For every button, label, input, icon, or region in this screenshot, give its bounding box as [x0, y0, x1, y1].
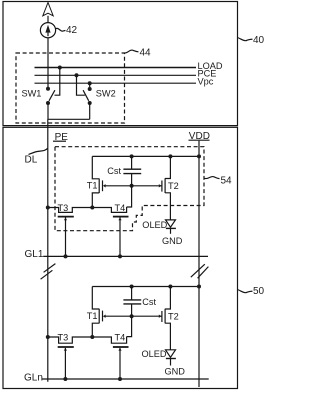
transistor T4 gate: [113, 216, 129, 218]
transistor T1 gate arrow: [103, 184, 106, 187]
svg-text:T1: T1: [87, 311, 98, 321]
svg-text:Vpc: Vpc: [198, 76, 214, 86]
transistor T3 gate pixel2: [58, 346, 74, 348]
node Cst top pixel2: [130, 285, 134, 289]
svg-text:SW2: SW2: [96, 88, 116, 98]
wire Vpc to SW2 contact: [89, 83, 91, 87]
node Cst top: [130, 154, 134, 158]
block 40 border: [3, 2, 238, 126]
transistor T1 gate pixel2: [102, 311, 104, 322]
LOAD line: [35, 67, 197, 69]
svg-text:GLn: GLn: [24, 373, 43, 384]
svg-text:OLED: OLED: [142, 349, 167, 359]
node GLn T3: [63, 377, 67, 381]
transistor T4 gate arrow: [118, 218, 121, 221]
OLED diode pixel1: [166, 220, 176, 227]
svg-text:DL: DL: [25, 154, 38, 165]
svg-text:Cst: Cst: [142, 297, 156, 307]
capacitor Cst lead top pixel2: [131, 287, 133, 300]
svg-text:OLED: OLED: [142, 220, 167, 230]
wire T3 gate to GLn: [64, 348, 66, 379]
switch SW2 arm: [83, 90, 89, 101]
capacitor Cst plates: [123, 168, 141, 170]
transistor T2 gate pixel2: [161, 311, 163, 322]
wire PCE to SW2 throw: [77, 75, 85, 95]
wire SW1 to output bus: [47, 103, 49, 119]
switch SW1 arm: [49, 90, 55, 101]
transistor T2 gate: [161, 181, 163, 192]
svg-text:PE: PE: [55, 132, 69, 143]
svg-text:SW1: SW1: [22, 88, 42, 98]
transistor T4 gate arrow pixel2: [118, 348, 121, 351]
svg-text:GND: GND: [165, 367, 186, 377]
node storage gate pixel2: [130, 314, 134, 318]
pixel boundary box 54 dashed: [55, 147, 204, 231]
node T2 drain: [168, 154, 172, 158]
wire T3 gate to GL1: [65, 218, 67, 257]
transistor T1 channel pixel2: [92, 287, 99, 338]
wire VDD row: [92, 155, 199, 157]
svg-text:T3: T3: [58, 332, 69, 342]
wire DL data line: [47, 119, 49, 382]
wire T4 gate to GLn: [119, 348, 121, 379]
capacitor Cst plates pixel2: [123, 299, 141, 301]
wire SW2 to output bus: [89, 103, 91, 119]
svg-text:T1: T1: [87, 181, 98, 191]
node DL tap pixel2: [46, 335, 50, 339]
transistor T2 gate arrow: [159, 184, 162, 187]
node storage gate: [130, 184, 134, 188]
Vpc line: [35, 82, 197, 84]
node LOAD junction: [58, 66, 62, 70]
switch SW1 contact from current source: [46, 87, 50, 91]
switch SW2 pivot: [88, 101, 92, 105]
svg-text:44: 44: [140, 48, 152, 59]
wire LOAD to SW1 throw: [55, 68, 60, 96]
GL1 line: [43, 255, 208, 257]
break marks DL: [41, 264, 56, 280]
label DL leader: [28, 148, 47, 154]
break marks VDD rail: [191, 264, 209, 278]
wire VDD row pixel2: [92, 286, 199, 288]
capacitor Cst lead bottom pixel2: [127, 304, 132, 337]
svg-text:54: 54: [221, 175, 233, 186]
arrow head (output): [43, 3, 53, 16]
transistor T2 channel: [165, 156, 170, 220]
label 54 leader: [205, 176, 220, 178]
node GLn T4: [118, 377, 122, 381]
node PCE junction: [75, 73, 79, 77]
label 42 leader: [56, 28, 66, 31]
transistor T1 gate: [102, 180, 104, 191]
svg-text:40: 40: [253, 35, 264, 46]
wire VDD rail: [198, 141, 200, 387]
transistor T3 gate arrow pixel2: [64, 348, 67, 351]
svg-text:Cst: Cst: [107, 166, 121, 176]
capacitor Cst lead bottom / wire to T4: [127, 174, 132, 207]
node VDD tap: [197, 154, 201, 158]
wire output bus: [48, 118, 90, 120]
wire gate rail pixel2: [105, 315, 161, 317]
svg-text:T2: T2: [168, 311, 179, 321]
node T2 drain pixel2: [168, 285, 172, 289]
node T1 source tap pixel2: [90, 335, 94, 339]
PCE line: [35, 74, 197, 76]
GLn line: [42, 378, 209, 380]
capacitor Cst lead top: [131, 156, 133, 169]
wire T3 row pixel2: [48, 337, 127, 344]
transistor T4 gate pixel2: [113, 346, 129, 348]
label 44 leader: [125, 50, 139, 53]
svg-text:T2: T2: [168, 181, 179, 191]
transistor T2 gate arrow pixel2: [159, 315, 162, 318]
transistor T1 channel: [92, 156, 99, 207]
block 50 border: [3, 127, 238, 388]
node GL1 T4: [118, 254, 122, 258]
svg-text:GND: GND: [162, 236, 183, 246]
switch SW1 pivot: [46, 101, 50, 105]
svg-text:GL1: GL1: [25, 249, 44, 260]
switch SW2 contact: [88, 87, 92, 91]
svg-text:T4: T4: [115, 332, 126, 342]
transistor T3 gate: [58, 216, 74, 218]
node T1 source tap: [90, 206, 94, 210]
node GL1 T3: [64, 254, 68, 258]
svg-text:42: 42: [66, 25, 78, 36]
wire current source to SW1: [47, 38, 49, 87]
node VDD tap pixel2: [197, 285, 201, 289]
svg-text:50: 50: [253, 286, 264, 297]
transistor T2 channel pixel2: [165, 287, 170, 350]
svg-text:T4: T4: [115, 203, 126, 213]
wire T3 row: [48, 207, 127, 212]
transistor T3 gate arrow: [64, 218, 67, 221]
wire T4 gate to GL1: [119, 218, 121, 257]
wire arrow to current source: [47, 16, 49, 23]
PE underline: [53, 140, 66, 142]
OLED diode pixel2: [166, 350, 176, 358]
current source arrow: [45, 25, 50, 33]
wire gate rail T1-T2: [105, 185, 161, 187]
switch box 44 dashed: [16, 53, 125, 123]
node DL tap pixel1: [46, 206, 50, 210]
label 40 leader: [238, 38, 253, 41]
VDD underline: [189, 139, 210, 141]
label 50 leader: [238, 290, 253, 293]
current source 42 circle: [40, 23, 55, 38]
svg-text:VDD: VDD: [189, 131, 210, 142]
node Vpc junction: [88, 81, 92, 85]
svg-text:T3: T3: [58, 203, 69, 213]
transistor T1 gate arrow pixel2: [103, 315, 106, 318]
